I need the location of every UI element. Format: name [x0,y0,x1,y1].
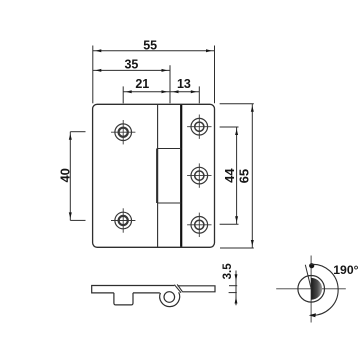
rotation view: 190 degree arc [310,264,338,315]
rotation view: arc end arrow [309,313,316,317]
hole bottom-right [187,213,211,237]
dimension 40 (left) [69,132,86,221]
dimension 44 (right) [220,127,239,224]
knuckle left edge line [157,104,159,247]
svg-text:190°: 190° [333,263,358,277]
side view: bend diagonals [174,285,181,293]
extension line right hole center [198,86,200,103]
extension line left hole center [122,86,124,103]
extension line body right [214,46,216,104]
hole top-right [187,115,211,139]
dimension 3.5 (side view) [229,271,238,306]
hole bottom-left [111,208,135,232]
svg-text:65: 65 [236,169,251,183]
side view: mounting tab [114,293,133,305]
hole top-left [111,120,135,144]
dimension 55 line [93,49,215,52]
extension line pin center [169,65,171,103]
rotation view: arc start dot [309,263,314,268]
rotation view: outline circle [298,276,325,303]
knuckle right edge (pin line, thick) [180,105,182,247]
extension line body left [92,46,94,104]
rotation view: rotated-leaf line [305,265,311,289]
dimension 65 (right outer) [220,104,254,248]
svg-text:44: 44 [222,168,237,183]
dimension 13 line [170,90,199,93]
rotation view: centerlines [276,288,346,290]
middle knuckle left edge (offset, thicker) [156,149,158,204]
dimension 35 line [93,69,170,72]
hole middle-right [187,163,211,187]
svg-text:55: 55 [143,38,157,52]
hinge body outline (front view) [93,104,215,247]
side view: right leaf [178,286,216,292]
svg-text:35: 35 [124,57,138,71]
dimension 21 line [123,90,170,93]
svg-text:40: 40 [58,168,73,182]
svg-text:3.5: 3.5 [222,263,234,280]
side view: left leaf [92,286,175,305]
svg-text:13: 13 [177,77,191,91]
knuckle divider top [158,148,182,150]
side view: knuckle outer curl [160,292,180,306]
rotation view: filled half disc [311,278,322,300]
knuckle divider bottom [158,202,182,204]
side view: pin hole [164,292,175,303]
svg-text:21: 21 [135,77,149,91]
